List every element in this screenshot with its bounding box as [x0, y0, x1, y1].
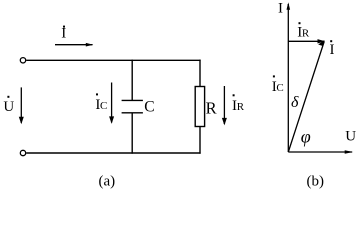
label IC (circuit) — [95, 93, 107, 113]
svg-text:I: I — [330, 42, 335, 58]
resistor R body — [195, 87, 204, 127]
axis U (phasor horizontal) — [288, 150, 353, 154]
svg-text:C: C — [100, 100, 107, 112]
vector IR (phasor) — [288, 39, 325, 43]
label IR (circuit) — [232, 94, 245, 114]
svg-text:R: R — [237, 101, 245, 113]
svg-text:R: R — [302, 28, 310, 40]
wire resistor bottom stub — [199, 127, 201, 154]
svg-text:R: R — [206, 98, 217, 117]
vector I (phasor diagonal) — [288, 40, 324, 152]
label IC (phasor) — [272, 75, 284, 95]
current arrow IC — [109, 83, 114, 124]
voltage arrow U — [19, 87, 24, 124]
terminal top-left — [20, 58, 25, 63]
svg-text:C: C — [144, 98, 154, 115]
wire resistor top stub — [199, 60, 201, 87]
axis I (phasor vertical) — [287, 2, 291, 152]
label I (phasor) — [330, 40, 335, 58]
svg-text:φ: φ — [301, 126, 311, 146]
label U-dot — [3, 96, 14, 115]
svg-text:U: U — [345, 129, 356, 145]
svg-text:(b): (b) — [307, 173, 325, 189]
svg-text:δ: δ — [291, 94, 299, 111]
svg-text:(a): (a) — [99, 173, 116, 189]
svg-text:I: I — [61, 26, 66, 42]
svg-text:U: U — [3, 99, 14, 115]
svg-text:C: C — [276, 82, 283, 94]
svg-text:I: I — [278, 1, 283, 17]
label IR (phasor) — [297, 22, 310, 40]
capacitor C plates — [122, 100, 143, 112]
wire capacitor bottom stub — [131, 113, 133, 154]
current arrow I (top) — [55, 43, 93, 47]
wire capacitor top stub — [131, 60, 133, 101]
wire bottom — [26, 152, 200, 154]
terminal bottom-left — [20, 150, 25, 155]
wire top — [26, 59, 200, 61]
current arrow IR (circuit) — [222, 86, 227, 125]
label I-dot (top current) — [61, 26, 66, 42]
